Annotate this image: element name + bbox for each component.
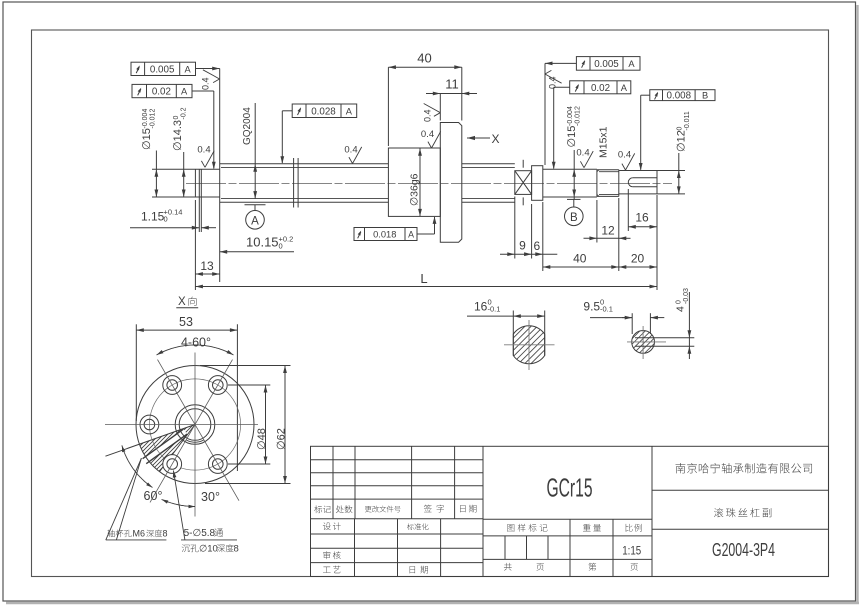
svg-text:-0.004: -0.004 [567,106,574,126]
svg-text:0.4: 0.4 [548,76,558,89]
svg-text:0.005: 0.005 [150,64,175,75]
svg-text:GCr15: GCr15 [547,473,593,503]
svg-text:A: A [628,59,635,69]
svg-text:-0.011: -0.011 [684,111,691,130]
svg-text:20: 20 [631,252,645,266]
svg-text:16: 16 [474,300,488,314]
svg-text:4-60°: 4-60° [181,336,211,350]
svg-text:0: 0 [676,300,683,304]
svg-text:0: 0 [173,116,180,120]
svg-text:∅15: ∅15 [566,126,578,148]
svg-text:1.15: 1.15 [141,210,165,224]
svg-text:0.02: 0.02 [591,83,610,94]
svg-text:0: 0 [164,215,168,224]
svg-text:X: X [491,132,499,146]
svg-text:X: X [178,296,186,308]
svg-text:0.008: 0.008 [667,91,692,102]
svg-text:9: 9 [519,239,526,253]
svg-text:9.5: 9.5 [583,300,600,314]
svg-text:0.018: 0.018 [373,230,396,240]
svg-text:-0.1: -0.1 [600,305,613,314]
svg-text:0.02: 0.02 [152,87,171,98]
svg-text:10.15: 10.15 [246,235,279,250]
svg-text:11: 11 [445,77,459,92]
svg-text:13: 13 [200,259,214,273]
svg-text:60°: 60° [144,489,163,503]
svg-text:∅62: ∅62 [276,428,288,450]
svg-text:16: 16 [635,211,649,225]
svg-text:0.4: 0.4 [201,77,211,90]
svg-text:-0.012: -0.012 [574,106,581,126]
svg-text:12: 12 [601,224,615,238]
svg-text:-0.012: -0.012 [149,109,156,129]
svg-text:M15x1: M15x1 [598,126,610,158]
svg-text:-0.2: -0.2 [180,107,187,119]
svg-text:6: 6 [533,239,540,253]
svg-text:A: A [621,83,628,93]
svg-text:0.005: 0.005 [594,59,619,70]
svg-text:5-∅5.8: 5-∅5.8 [184,528,216,539]
svg-text:∅15: ∅15 [141,128,153,150]
svg-text:A: A [181,87,188,97]
svg-text:1:15: 1:15 [622,544,641,558]
svg-text:30°: 30° [201,490,220,504]
svg-text:0.4: 0.4 [618,150,631,161]
svg-text:A: A [184,64,191,74]
svg-text:4: 4 [675,306,687,312]
svg-text:0: 0 [279,242,283,251]
svg-text:40: 40 [573,252,587,266]
svg-text:40: 40 [417,51,431,66]
svg-text:∅48: ∅48 [256,428,268,450]
svg-text:-0.1: -0.1 [488,305,501,314]
svg-text:0: 0 [677,127,684,131]
svg-text:M6: M6 [133,529,146,539]
svg-text:8: 8 [163,529,168,539]
svg-text:53: 53 [179,315,193,329]
svg-text:0.4: 0.4 [576,148,589,159]
svg-text:A: A [251,215,259,227]
svg-text:B: B [570,212,578,224]
svg-text:0.4: 0.4 [423,109,433,122]
svg-text:0.4: 0.4 [421,129,434,140]
svg-text:∅12: ∅12 [676,130,688,152]
svg-text:B: B [702,91,708,101]
svg-text:G2004-3P4: G2004-3P4 [712,539,775,560]
svg-text:A: A [346,106,353,116]
svg-text:∅10: ∅10 [199,544,218,555]
svg-text:∅14.3: ∅14.3 [172,120,184,151]
svg-text:0.028: 0.028 [311,106,336,117]
svg-text:GQ2004: GQ2004 [242,107,253,145]
svg-text:-0.03: -0.03 [683,288,690,304]
svg-text:L: L [420,271,427,286]
svg-text:0.4: 0.4 [344,145,357,156]
svg-text:8: 8 [234,544,239,555]
svg-text:0.4: 0.4 [197,145,210,156]
svg-text:A: A [408,230,414,240]
svg-text:-0.004: -0.004 [142,109,149,129]
svg-text:∅36g6: ∅36g6 [409,173,421,206]
